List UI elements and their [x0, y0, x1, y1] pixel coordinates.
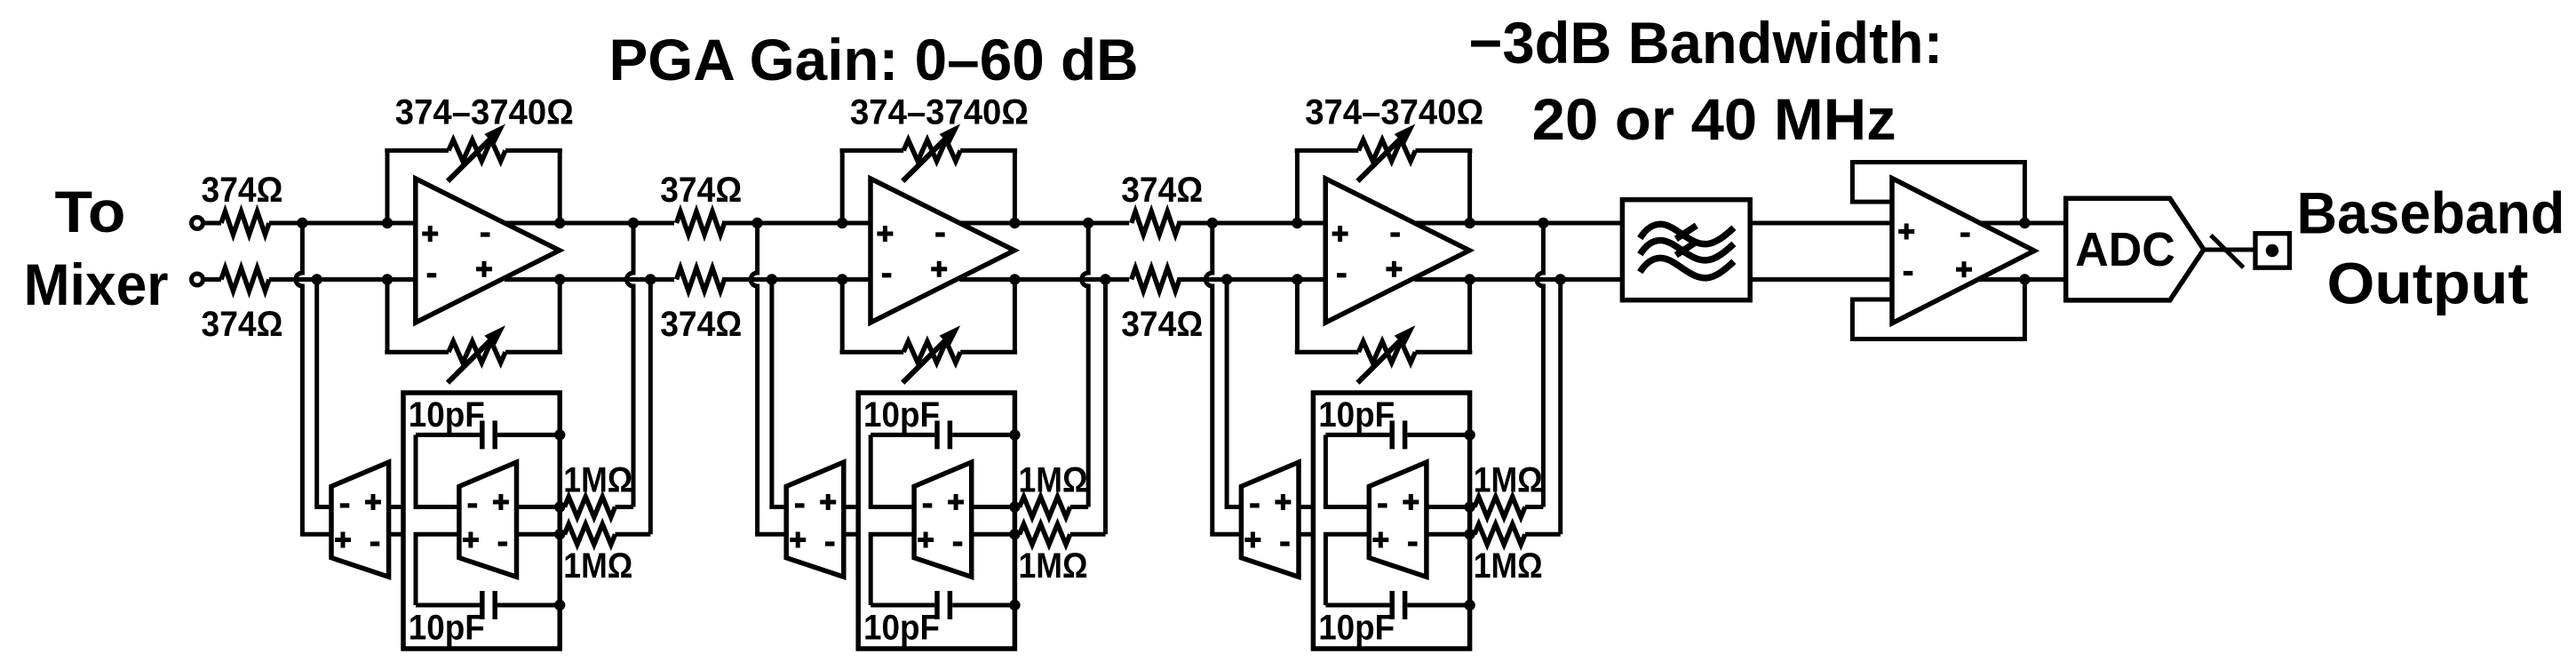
variable resistor 374-3740ohm bottom feedback, stage 1 [449, 341, 505, 363]
wire: stage 1 bottom feedback rail [385, 350, 449, 355]
node: stage 1 top feedback left junction [382, 218, 393, 228]
wire: filter to buffer bottom [1750, 277, 1892, 282]
wire: ADC digital output [2204, 248, 2256, 252]
capacitor 10pF bottom, stage 2 [871, 603, 934, 608]
transconductor gm2a (input gm cell) [786, 462, 844, 577]
node: stage 2 top feedback left junction [837, 218, 847, 228]
wire: stage 1 bottom output wire [505, 277, 674, 282]
gm1a - sign top-left [340, 503, 350, 507]
wire: stage 3 top feedback left vertical [1295, 150, 1300, 223]
resistor 1Mohm bottom, stage 3 [1470, 532, 1475, 537]
node: stage 3 bottom output tap [1555, 274, 1566, 284]
svg-text:10pF: 10pF [409, 395, 485, 435]
gm2a + sign bottom-left [790, 532, 806, 548]
wire: stage 2 bottom feedback left vertical [840, 280, 845, 353]
svg-text:Baseband: Baseband [2297, 180, 2565, 246]
filter wave 2 slash [1676, 242, 1697, 255]
op-amp A2 + input sign [877, 226, 893, 242]
integrator box, stage 1 [403, 393, 560, 649]
wire: stage 2 top feedback rail [840, 148, 904, 153]
op-amp A1 + input sign [422, 226, 438, 242]
filter wave 1 slash [1676, 226, 1697, 239]
wire: stage 3 vertical from bottom wire down to gm1 upper input [1225, 280, 1229, 507]
gm1b + sign bottom-left [463, 532, 479, 548]
svg-text:374–3740Ω: 374–3740Ω [1305, 93, 1483, 132]
capacitor 10pF top, stage 2 [871, 433, 934, 437]
svg-text:1MΩ: 1MΩ [1474, 461, 1543, 500]
resistor 1Mohm top, stage 3 [1470, 505, 1475, 509]
gm2b + sign bottom-left [918, 532, 934, 548]
op-amp A4 + input sign [1898, 224, 1914, 240]
wire: bottom cap left vertical to gm2b input [869, 534, 873, 605]
node: A4 bottom feedback junction [2019, 274, 2030, 284]
node: stage 3 top feedback right junction [1464, 218, 1475, 228]
op-amp A4 - output sign [1960, 233, 1970, 237]
wire: stage 1 vertical from top output down to 1Mohm (hops bottom wire) [627, 223, 633, 507]
node: stage 3 bottom feedback left junction [1292, 274, 1302, 284]
wire: stage 3 vertical from bottom output down to 1Mohm [1558, 280, 1562, 535]
wire: stage 2 bottom output wire [959, 277, 1129, 282]
gm1b + sign top-right [493, 494, 509, 510]
wire: stage 2 bottom feedback right vertical [1013, 280, 1017, 353]
op-amp A2 + output sign [931, 261, 947, 277]
svg-text:1MΩ: 1MΩ [1474, 546, 1543, 586]
node: stage 1 bottom feedback left junction [382, 274, 393, 284]
op-amp A1 - output sign [481, 232, 490, 236]
node: bottom cap to box right edge, stage 1 [554, 600, 565, 610]
svg-text:10pF: 10pF [863, 609, 940, 648]
svg-text:20 or 40 MHz: 20 or 40 MHz [1532, 86, 1896, 152]
node: stage 2 bottom feedback right junction [1009, 274, 1020, 284]
filter wave symbol 1 (top) [1640, 224, 1734, 243]
svg-text:374Ω: 374Ω [660, 305, 742, 344]
svg-text:−3dB Bandwidth:: −3dB Bandwidth: [1468, 10, 1943, 76]
op-amp A2 - input sign [882, 273, 892, 277]
op-amp A1 - input sign [427, 273, 437, 277]
variable resistor 374-3740ohm bottom feedback, stage 2 [903, 341, 960, 363]
transconductor gm1b (integrator gm cell) [459, 462, 517, 577]
wire: gm3a outputs to integrator box [1299, 505, 1315, 509]
wire: stage 1 bottom signal wire (input side) [269, 277, 416, 282]
gm3b - sign top-left [1378, 503, 1387, 507]
node: gm1b bottom output junction [554, 529, 565, 539]
transconductor gm2b (integrator gm cell) [914, 462, 972, 577]
node: gm1b top output junction [554, 501, 565, 512]
node: gm3b bottom output junction [1464, 529, 1475, 539]
svg-text:374Ω: 374Ω [202, 171, 283, 210]
wire: stage 3 top signal wire (input side) [1177, 221, 1325, 226]
wire: A4 feedback bracket top [1852, 163, 2024, 224]
svg-text:Output: Output [2327, 250, 2529, 315]
resistor 374ohm top input [203, 221, 222, 226]
resistor 1Mohm top, stage 1 [560, 505, 564, 509]
node: stage 1 top-wire tap to offset loop [297, 218, 307, 228]
wire: stage 1 top feedback left vertical [386, 150, 390, 223]
gm1a + sign top-right [365, 494, 381, 510]
node: top cap to box right edge, stage 1 [554, 429, 565, 440]
gm1b - sign bottom-right [498, 541, 508, 546]
wire: filter to buffer top [1750, 221, 1892, 226]
node: bottom cap to box right edge, stage 2 [1009, 600, 1020, 610]
op-amp A3 + input sign [1332, 226, 1348, 242]
gm3b + sign top-right [1403, 494, 1419, 510]
resistor 1Mohm bottom, stage 2 [1014, 532, 1019, 537]
node: stage 3 top-wire tap to offset loop [1207, 218, 1218, 228]
input terminal top (open circle) [192, 218, 203, 229]
wire: stage 3 top output wire [1414, 221, 1622, 226]
wire: stage 2 bottom feedback rail [840, 350, 904, 355]
wire: top cap left vertical to gm1b input [414, 435, 418, 506]
resistor 1Mohm bottom, stage 1 [560, 532, 564, 537]
op-amp A4 - input sign [1904, 271, 1913, 275]
wire: A4 to ADC top [1978, 221, 2066, 226]
variable resistor 374-3740ohm top feedback, stage 1 [449, 140, 505, 161]
svg-text:374–3740Ω: 374–3740Ω [850, 93, 1029, 132]
wire: gm1b outputs to box right edge [517, 505, 561, 509]
svg-text:374Ω: 374Ω [202, 305, 283, 344]
variable resistor 374-3740ohm bottom feedback, stage 3 [1358, 341, 1415, 363]
wire: stage 3 vertical from top wire down to gm1 lower input (hops bottom wire) [1205, 223, 1212, 534]
gm3a + sign top-right [1275, 494, 1291, 510]
gm3a - sign bottom-right [1280, 541, 1290, 546]
node: stage 2 bottom feedback left junction [837, 274, 847, 284]
node: stage 3 top feedback left junction [1292, 218, 1302, 228]
svg-text:PGA Gain: 0–60 dB: PGA Gain: 0–60 dB [609, 27, 1139, 92]
op-amp A4 + output sign [1956, 261, 1972, 277]
gm3a + sign bottom-left [1244, 532, 1260, 548]
gm2b + sign top-right [948, 494, 964, 510]
resistor 374ohm inter-stage bottom, after stage 2 [1132, 268, 1180, 291]
node: stage 3 bottom feedback right junction [1464, 274, 1475, 284]
wire: bottom cap left vertical to gm3b input [1324, 534, 1328, 605]
gm1a + sign bottom-left [335, 532, 351, 548]
gm2a + sign top-right [820, 494, 836, 510]
resistor 1Mohm top, stage 2 [1014, 505, 1019, 509]
wire: stage 3 bottom signal wire (input side) [1177, 277, 1325, 282]
wire: stage 1 top feedback right vertical [558, 150, 562, 223]
svg-text:374Ω: 374Ω [1121, 171, 1203, 210]
wire: stage 2 vertical from bottom wire down to gm1 upper input [769, 280, 774, 507]
wire: A4 feedback bracket bottom [1852, 280, 2024, 339]
svg-text:1MΩ: 1MΩ [563, 461, 632, 500]
wire: stage 3 vertical from top output down to 1Mohm (hops bottom wire) [1537, 223, 1543, 507]
wire: stage 3 bottom feedback left vertical [1295, 280, 1300, 353]
wire: stage 3 bottom feedback rail [1295, 350, 1359, 355]
node: gm2b bottom output junction [1009, 529, 1020, 539]
gm2a - sign bottom-right [825, 541, 835, 546]
svg-text:374–3740Ω: 374–3740Ω [395, 93, 574, 132]
svg-text:374Ω: 374Ω [660, 171, 742, 210]
node: stage 2 top-wire tap to offset loop [751, 218, 762, 228]
svg-text:10pF: 10pF [863, 395, 940, 435]
resistor 374ohm inter-stage top, after stage 2 [1132, 211, 1180, 235]
wire: gm3b outputs to box right edge [1427, 505, 1470, 509]
svg-text:1MΩ: 1MΩ [1019, 546, 1088, 586]
svg-text:1MΩ: 1MΩ [563, 546, 632, 586]
node: stage 2 bottom-wire tap to offset loop [767, 274, 777, 284]
gm2a - sign top-left [795, 503, 805, 507]
filter wave symbol 3 (bottom) [1640, 258, 1734, 277]
node: stage 3 bottom-wire tap to offset loop [1221, 274, 1232, 284]
node: stage 2 bottom output tap [1100, 274, 1110, 284]
svg-text:374Ω: 374Ω [1121, 305, 1203, 344]
gm2b - sign bottom-right [953, 541, 963, 546]
svg-text:10pF: 10pF [1318, 609, 1395, 648]
filter block (lowpass filter) [1622, 200, 1750, 300]
transconductor gm3b (integrator gm cell) [1369, 462, 1427, 577]
wire: gm1a outputs to integrator box [389, 505, 405, 509]
wire: stage 1 vertical from top wire down to gm1 lower input (hops bottom wire) [296, 223, 302, 534]
variable resistor 374-3740ohm top feedback, stage 2 [903, 140, 960, 161]
bus slash on ADC output [2211, 235, 2244, 267]
gm1a - sign bottom-right [370, 541, 380, 546]
wire: stage 2 vertical from top wire down to gm1 lower input (hops bottom wire) [751, 223, 758, 534]
wire: stage 3 top feedback right vertical [1467, 150, 1472, 223]
svg-text:Mixer: Mixer [24, 251, 169, 317]
node: stage 1 bottom-wire tap to offset loop [312, 274, 322, 284]
integrator box, stage 3 [1313, 393, 1469, 649]
resistor 374ohm inter-stage top, after stage 1 [677, 211, 725, 235]
node: stage 1 top output tap [628, 218, 639, 228]
wire: bottom cap left vertical to gm1b input [414, 534, 418, 605]
transconductor gm3a (input gm cell) [1241, 462, 1299, 577]
wire: gm2a outputs to integrator box [844, 505, 860, 509]
wire: stage 1 top feedback rail [385, 148, 449, 153]
resistor 374ohm inter-stage bottom, after stage 1 [677, 268, 725, 291]
svg-text:To: To [55, 179, 126, 244]
integrator box, stage 2 [858, 393, 1014, 649]
wire: stage 1 vertical from bottom output down to 1Mohm [648, 280, 653, 535]
node: top cap to box right edge, stage 2 [1009, 429, 1020, 440]
op-amp A3 (fully differential amplifier) [1325, 179, 1469, 323]
wire: stage 1 top output wire [505, 221, 674, 226]
wire: stage 2 bottom signal wire (input side) [722, 277, 871, 282]
wire: stage 2 top output wire [959, 221, 1129, 226]
gm3b + sign bottom-left [1372, 532, 1388, 548]
capacitor 10pF top, stage 1 [416, 433, 480, 437]
node: bottom cap to box right edge, stage 3 [1464, 600, 1475, 610]
resistor 374ohm bottom input [203, 277, 222, 282]
wire: stage 2 top signal wire (input side) [722, 221, 871, 226]
filter wave symbol 2 (middle) [1640, 240, 1734, 259]
op-amp A3 - input sign [1337, 273, 1347, 277]
op-amp A1 + output sign [476, 261, 492, 277]
gm1b - sign top-left [468, 503, 478, 507]
wire: A4 to ADC bottom [1978, 277, 2066, 282]
gm2b - sign top-left [923, 503, 933, 507]
capacitor 10pF top, stage 3 [1325, 433, 1389, 437]
wire: stage 3 bottom output wire [1414, 277, 1622, 282]
op-amp A2 - output sign [935, 232, 945, 236]
wire: gm2b outputs to box right edge [972, 505, 1015, 509]
wire: stage 1 vertical from bottom wire down to gm1 upper input [314, 280, 319, 507]
capacitor 10pF bottom, stage 1 [416, 603, 480, 608]
wire: stage 3 top feedback rail [1295, 148, 1359, 153]
wire: stage 2 vertical from bottom output down to 1Mohm [1103, 280, 1108, 535]
node: stage 2 top feedback right junction [1009, 218, 1020, 228]
op-amp A1 (fully differential amplifier) [416, 179, 560, 323]
ADC block [2066, 198, 2204, 300]
wire: stage 2 top feedback left vertical [840, 150, 845, 223]
wire: stage 1 top signal wire (input side) [269, 221, 416, 226]
node: stage 3 top output tap [1538, 218, 1548, 228]
svg-text:10pF: 10pF [1318, 395, 1395, 435]
op-amp A3 + output sign [1386, 261, 1402, 277]
output port square with dot [2255, 234, 2290, 268]
node: gm3b top output junction [1464, 501, 1475, 512]
wire: stage 2 vertical from top output down to 1Mohm (hops bottom wire) [1082, 223, 1089, 507]
gm3a - sign top-left [1250, 503, 1260, 507]
wire: stage 3 bottom feedback right vertical [1467, 280, 1472, 353]
transconductor gm1a (input gm cell) [331, 462, 389, 577]
wire: top cap left vertical to gm3b input [1324, 435, 1328, 506]
svg-text:ADC: ADC [2075, 223, 2175, 276]
op-amp A2 (fully differential amplifier) [871, 179, 1014, 323]
capacitor 10pF bottom, stage 3 [1325, 603, 1389, 608]
gm3b - sign bottom-right [1408, 541, 1418, 546]
node: gm2b top output junction [1009, 501, 1020, 512]
node: stage 2 top output tap [1083, 218, 1093, 228]
wire: stage 1 bottom feedback left vertical [386, 280, 390, 353]
node: stage 1 bottom output tap [645, 274, 656, 284]
svg-text:1MΩ: 1MΩ [1019, 461, 1088, 500]
wire: stage 1 bottom feedback right vertical [558, 280, 562, 353]
op-amp A3 - output sign [1390, 232, 1400, 236]
input terminal bottom (open circle) [192, 274, 203, 285]
variable resistor 374-3740ohm top feedback, stage 3 [1358, 140, 1415, 161]
node: stage 1 top feedback right junction [554, 218, 565, 228]
wire: stage 2 top feedback right vertical [1013, 150, 1017, 223]
svg-text:10pF: 10pF [409, 609, 485, 648]
node: top cap to box right edge, stage 3 [1464, 429, 1475, 440]
node: A4 top feedback junction [2019, 218, 2030, 228]
op-amp A4 (output buffer) [1892, 179, 2034, 323]
wire: top cap left vertical to gm2b input [869, 435, 873, 506]
node: stage 1 bottom feedback right junction [554, 274, 565, 284]
